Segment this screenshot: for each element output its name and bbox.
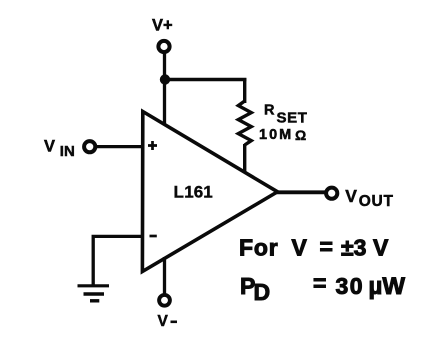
svg-text:L: L: [174, 182, 184, 201]
svg-text:For: For: [239, 234, 278, 260]
label 10M ohm: [259, 127, 306, 143]
label RSET: [264, 103, 307, 127]
svg-text:161: 161: [184, 182, 212, 201]
svg-text:V+: V+: [152, 17, 173, 35]
wire V-: [163, 257, 166, 295]
svg-text:OUT: OUT: [359, 193, 394, 210]
wire output: [276, 190, 325, 194]
terminal VIN: [84, 141, 95, 152]
terminal V+: [158, 41, 169, 52]
svg-text:V: V: [292, 234, 308, 260]
svg-text:=: =: [320, 234, 333, 260]
wire V+ to op-amp: [163, 54, 166, 127]
wire resistor bottom to output edge: [243, 144, 246, 172]
wire down to resistor top: [243, 78, 246, 103]
wire junction to resistor (horizontal): [163, 78, 246, 82]
svg-text:R: R: [264, 103, 275, 119]
svg-text:V: V: [345, 186, 357, 206]
ground: [78, 286, 110, 301]
junction dot: [160, 74, 170, 84]
svg-text:V: V: [373, 234, 389, 260]
svg-text:SET: SET: [277, 109, 308, 126]
terminal V-: [159, 295, 170, 306]
wire VIN to op-amp: [97, 145, 144, 148]
label VOUT: [345, 186, 394, 210]
svg-text:Ω: Ω: [295, 127, 306, 143]
svg-text:D: D: [254, 279, 271, 305]
svg-text:IN: IN: [60, 143, 75, 160]
label L161: [174, 182, 213, 201]
svg-text:±3: ±3: [341, 234, 366, 260]
minus input marker: [150, 235, 157, 238]
wire inverting input: [93, 236, 144, 286]
op-amp U1: [142, 112, 277, 272]
terminal VOUT: [326, 188, 337, 199]
svg-text:V: V: [158, 313, 169, 330]
resistor R_SET: [238, 101, 251, 145]
svg-text:V: V: [44, 137, 55, 155]
plus input marker: [148, 141, 157, 150]
svg-text:10M: 10M: [259, 127, 293, 143]
label VIN: [44, 137, 75, 160]
svg-text:µW: µW: [369, 273, 406, 300]
svg-text:=: =: [313, 270, 326, 296]
annotation line 2: PD = 30 uW: [240, 270, 405, 305]
annotation line 1: For V = +/-3 V: [239, 234, 389, 261]
svg-text:30: 30: [336, 273, 365, 299]
